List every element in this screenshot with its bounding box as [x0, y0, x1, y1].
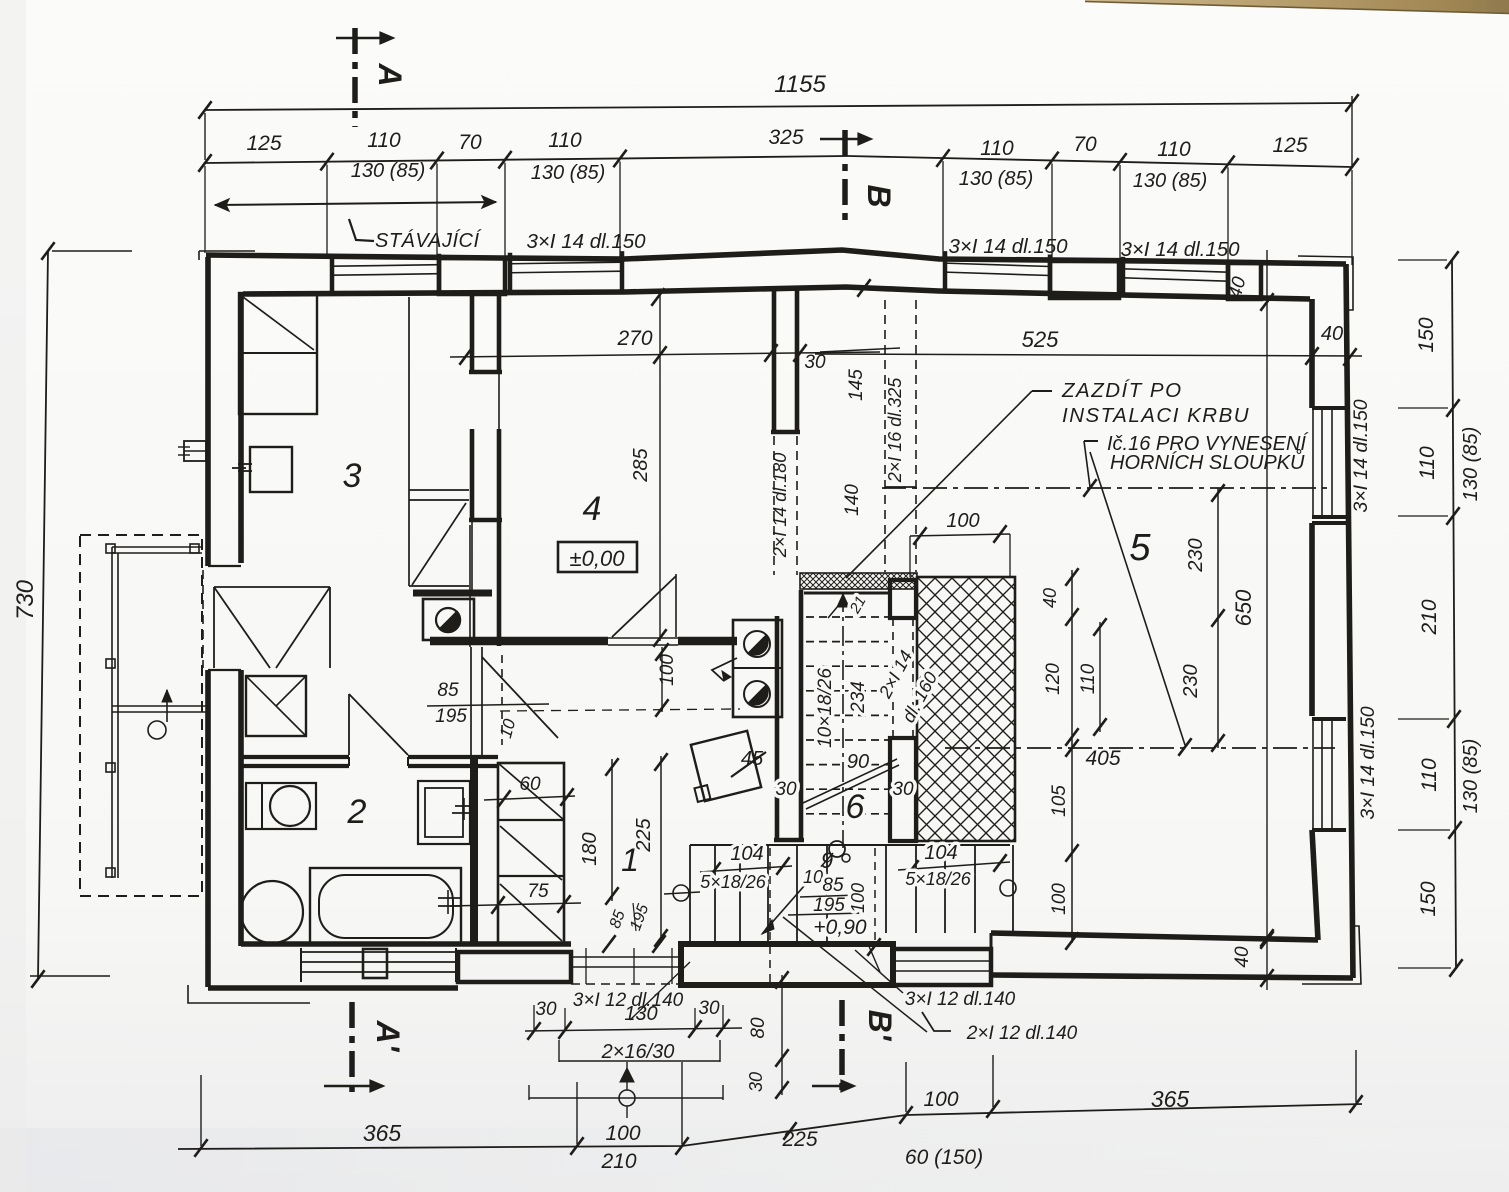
svg-text:110: 110: [1078, 663, 1099, 694]
svg-text:110: 110: [367, 129, 401, 152]
svg-text:100: 100: [946, 510, 979, 532]
svg-text:30: 30: [535, 999, 557, 1020]
svg-text:105: 105: [1049, 785, 1070, 817]
svg-text:110: 110: [1418, 758, 1441, 792]
svg-text:180: 180: [579, 832, 601, 865]
svg-text:130 (85): 130 (85): [1133, 170, 1208, 192]
svg-text:2×I 16 dl.325: 2×I 16 dl.325: [885, 377, 905, 484]
svg-text:45: 45: [741, 748, 764, 770]
svg-text:650: 650: [1231, 589, 1256, 626]
svg-text:B': B': [862, 1010, 898, 1042]
svg-text:230: 230: [1180, 664, 1202, 698]
svg-text:3: 3: [343, 457, 362, 495]
svg-text:2: 2: [347, 793, 367, 831]
svg-text:HORNÍCH SLOUPKŮ: HORNÍCH SLOUPKŮ: [1110, 449, 1305, 474]
svg-text:225: 225: [781, 1128, 817, 1151]
svg-text:5: 5: [1129, 527, 1151, 569]
svg-text:60: 60: [519, 774, 541, 795]
svg-text:130 (85): 130 (85): [531, 162, 606, 184]
svg-text:80: 80: [748, 1017, 769, 1039]
svg-text:40: 40: [1040, 588, 1060, 608]
svg-text:365: 365: [1151, 1086, 1190, 1112]
svg-text:145: 145: [846, 369, 867, 401]
svg-text:85: 85: [822, 875, 844, 896]
svg-text:10: 10: [803, 867, 823, 887]
svg-text:30: 30: [775, 779, 797, 800]
svg-text:2×I 14 dl.180: 2×I 14 dl.180: [770, 453, 790, 559]
svg-text:234: 234: [848, 681, 869, 714]
svg-text:±0,00: ±0,00: [570, 546, 626, 571]
svg-text:125: 125: [246, 132, 281, 155]
svg-text:85: 85: [437, 680, 459, 701]
svg-text:100: 100: [923, 1088, 958, 1111]
svg-text:130 (85): 130 (85): [351, 160, 426, 182]
svg-text:730: 730: [12, 579, 39, 620]
svg-text:3×I 14 dl.150: 3×I 14 dl.150: [526, 230, 646, 253]
svg-text:195: 195: [435, 706, 467, 727]
svg-text:INSTALACI KRBU: INSTALACI KRBU: [1062, 404, 1250, 427]
svg-text:60 (150): 60 (150): [905, 1146, 983, 1169]
svg-text:6: 6: [846, 788, 865, 826]
svg-text:3×I 14 dl.150: 3×I 14 dl.150: [1120, 238, 1240, 261]
svg-text:1: 1: [621, 842, 639, 878]
svg-text:2×16/30: 2×16/30: [601, 1041, 675, 1063]
svg-text:325: 325: [768, 126, 803, 149]
svg-text:195: 195: [813, 895, 845, 916]
svg-text:130 (85): 130 (85): [1460, 427, 1482, 502]
svg-text:120: 120: [1043, 663, 1064, 695]
svg-text:5×18/26: 5×18/26: [700, 872, 767, 892]
svg-text:30: 30: [892, 779, 914, 800]
svg-text:150: 150: [1417, 881, 1440, 916]
svg-text:270: 270: [616, 327, 652, 350]
svg-text:ZAZDÍT PO: ZAZDÍT PO: [1061, 379, 1183, 402]
svg-text:5×18/26: 5×18/26: [905, 869, 972, 889]
svg-text:285: 285: [630, 447, 652, 482]
svg-text:70: 70: [458, 131, 482, 154]
svg-text:110: 110: [980, 137, 1014, 160]
svg-text:104: 104: [924, 842, 957, 864]
svg-text:B: B: [861, 184, 897, 207]
svg-text:1155: 1155: [774, 71, 826, 98]
svg-text:125: 125: [1272, 134, 1307, 157]
svg-text:110: 110: [1157, 138, 1191, 161]
svg-text:4: 4: [583, 490, 602, 528]
svg-text:90: 90: [847, 751, 869, 773]
svg-text:405: 405: [1085, 747, 1120, 770]
svg-text:3×I 12 dl.140: 3×I 12 dl.140: [573, 990, 684, 1011]
svg-text:210: 210: [1418, 599, 1441, 635]
svg-text:40: 40: [1232, 946, 1253, 968]
svg-text:2×I 12 dl.140: 2×I 12 dl.140: [966, 1023, 1078, 1044]
svg-text:210: 210: [600, 1150, 636, 1173]
svg-text:100: 100: [848, 883, 868, 913]
svg-text:104: 104: [730, 843, 763, 865]
svg-text:3×I 14 dl.150: 3×I 14 dl.150: [1350, 399, 1372, 512]
svg-text:100: 100: [1049, 883, 1070, 915]
svg-text:+0,90: +0,90: [813, 916, 866, 939]
svg-text:A': A': [370, 1020, 406, 1053]
svg-text:130 (85): 130 (85): [959, 168, 1034, 190]
svg-text:10×18/26: 10×18/26: [815, 668, 836, 748]
svg-text:A: A: [372, 62, 408, 86]
svg-text:30: 30: [804, 352, 826, 373]
svg-text:40: 40: [1321, 323, 1343, 345]
svg-text:110: 110: [548, 129, 582, 152]
svg-text:3×I 12 dl.140: 3×I 12 dl.140: [905, 989, 1016, 1010]
svg-text:365: 365: [363, 1120, 402, 1146]
svg-text:110: 110: [1416, 446, 1439, 480]
svg-text:130 (85): 130 (85): [1460, 739, 1482, 814]
svg-text:3×I 14 dl.150: 3×I 14 dl.150: [1357, 706, 1379, 819]
svg-text:75: 75: [527, 881, 549, 902]
svg-text:140: 140: [842, 484, 863, 516]
svg-text:70: 70: [1073, 133, 1097, 156]
svg-text:525: 525: [1022, 327, 1059, 352]
svg-text:30: 30: [746, 1072, 766, 1092]
svg-text:100: 100: [657, 654, 678, 686]
svg-text:STÁVAJÍCÍ: STÁVAJÍCÍ: [375, 229, 482, 252]
svg-text:100: 100: [605, 1122, 640, 1145]
svg-text:30: 30: [698, 998, 720, 1019]
svg-text:230: 230: [1185, 538, 1207, 572]
svg-text:150: 150: [1415, 317, 1438, 352]
